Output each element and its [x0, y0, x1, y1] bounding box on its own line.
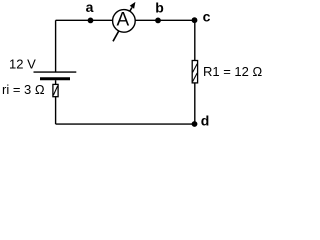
node b (junction dot) [155, 18, 161, 24]
svg-text:ri = 3 Ω: ri = 3 Ω [2, 82, 45, 97]
wire: right segment from node d up to resistor R1 [194, 83, 196, 124]
battery B1 positive plate [34, 71, 77, 73]
resistor R1 (rectangle with two slashes) [192, 61, 197, 83]
wire: right segment from resistor R1 up to node c [194, 20, 196, 60]
node c (junction dot) [192, 17, 198, 23]
svg-text:a: a [86, 0, 94, 15]
svg-text:R1 = 12 Ω: R1 = 12 Ω [203, 64, 263, 79]
svg-text:A: A [116, 10, 129, 31]
wire: resistor ri to bottom-left corner [55, 97, 57, 124]
ammeter A1 [113, 2, 136, 41]
wire: bottom segment from left corner to node d [56, 123, 195, 125]
svg-text:12 V: 12 V [9, 57, 36, 72]
wire: left segment from top corner down to battery [55, 20, 57, 71]
node d (junction dot) [192, 121, 198, 127]
svg-text:c: c [203, 8, 211, 24]
battery B1 negative plate [40, 77, 70, 80]
wire: top segment from left corner to ammeter [56, 19, 114, 21]
svg-text:d: d [201, 112, 210, 128]
node a (junction dot) [88, 18, 94, 24]
wire: top segment from ammeter to node c [134, 19, 195, 21]
resistor ri (internal resistance, rectangle with slash) [53, 84, 58, 96]
svg-text:b: b [155, 0, 164, 15]
wire: battery to internal resistor ri [55, 80, 57, 84]
